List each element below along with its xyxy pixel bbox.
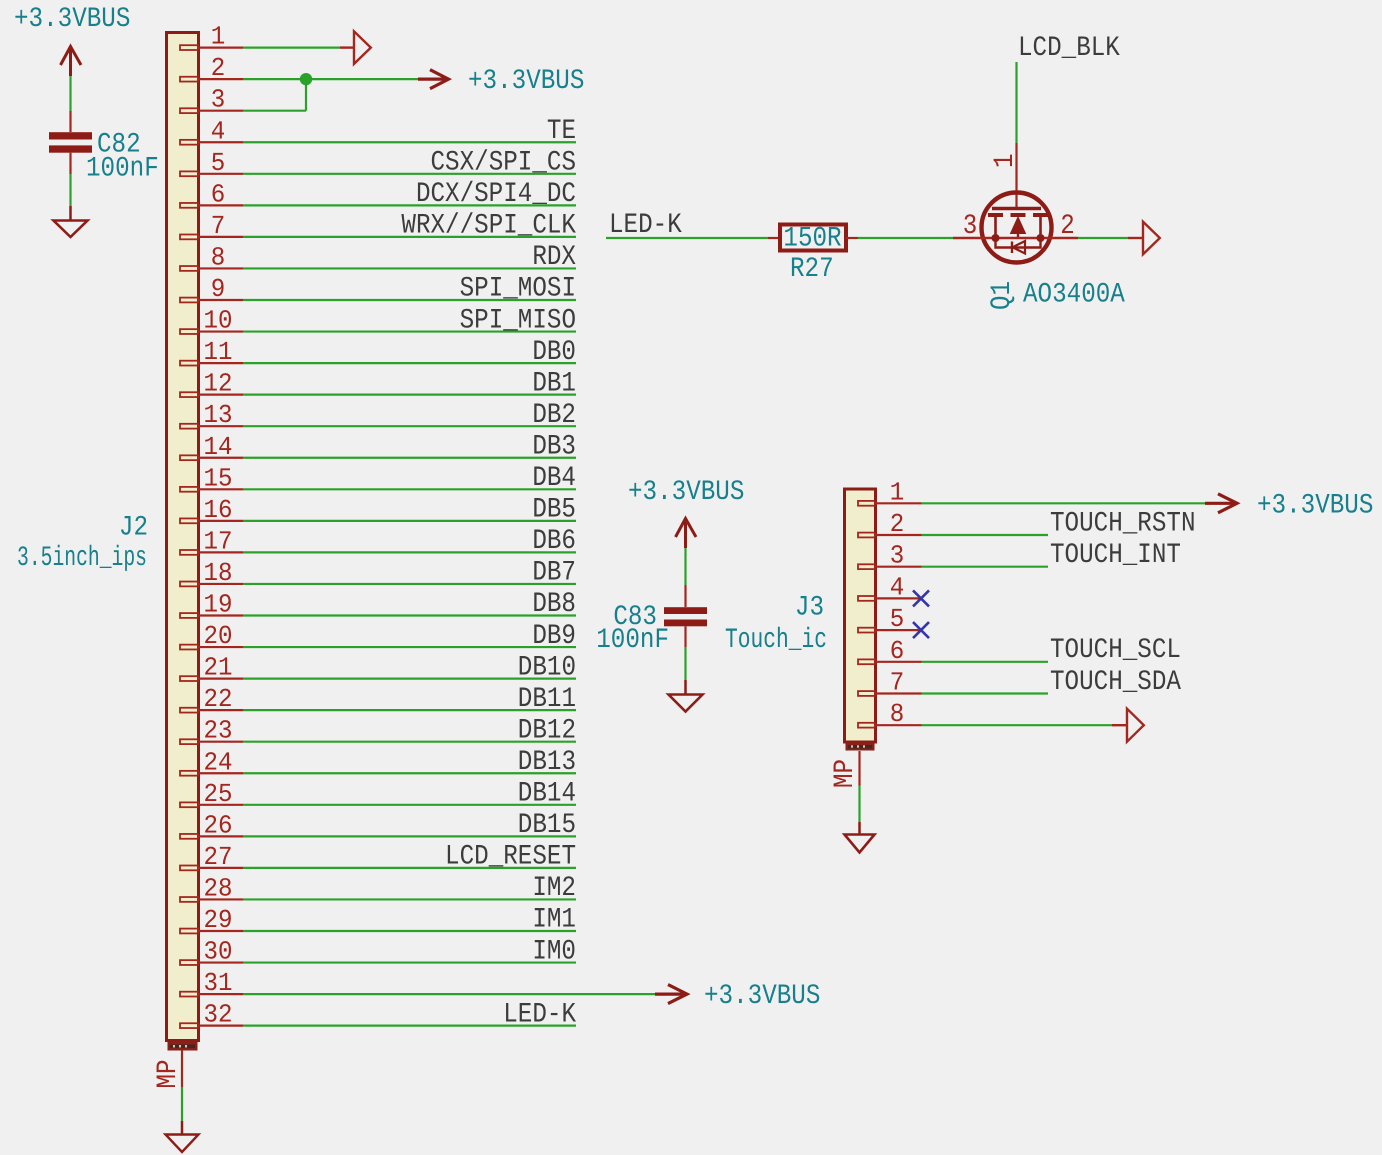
svg-text:+3.3VBUS: +3.3VBUS (468, 66, 584, 97)
svg-text:31: 31 (204, 968, 233, 998)
ground (166, 1121, 199, 1152)
capacitor C82 (49, 111, 159, 185)
J2 pin 3 (180, 85, 243, 115)
svg-text:30: 30 (204, 937, 233, 967)
capacitor C83 (596, 585, 707, 656)
svg-text:3: 3 (211, 85, 226, 115)
J2 pin 1 (180, 22, 243, 52)
power symbol +3.3VBUS (C83) (628, 477, 744, 548)
wire (243, 993, 655, 995)
svg-text:17: 17 (204, 526, 233, 556)
svg-text:1: 1 (890, 477, 905, 507)
wire (243, 488, 576, 490)
svg-text:100nF: 100nF (596, 625, 669, 656)
wire (243, 110, 306, 112)
wire (243, 520, 576, 522)
J2 pin 14 (180, 432, 243, 462)
connector J3 body (845, 489, 876, 742)
J2 pin 26 (180, 810, 243, 840)
J3 pin 1 (858, 477, 922, 507)
svg-text:AO3400A: AO3400A (1023, 280, 1125, 311)
svg-text:21: 21 (204, 653, 233, 683)
J2 pin 20 (180, 621, 243, 651)
wire (243, 930, 576, 932)
no-connect X (913, 622, 929, 638)
svg-text:J2: J2 (119, 513, 148, 544)
wire (922, 502, 1206, 504)
svg-text:13: 13 (204, 400, 233, 430)
ground (845, 822, 875, 853)
svg-text:DB8: DB8 (532, 589, 576, 620)
svg-text:4: 4 (890, 572, 905, 602)
J2 pin 17 (180, 526, 243, 556)
wire (606, 237, 768, 239)
svg-text:+3.3VBUS: +3.3VBUS (704, 981, 820, 1012)
svg-text:TOUCH_RSTN: TOUCH_RSTN (1050, 508, 1196, 539)
wire (243, 709, 576, 711)
svg-text:3: 3 (963, 211, 978, 242)
wire (69, 174, 71, 206)
connector J2 body (167, 33, 199, 1041)
svg-text:WRX//SPI_CLK: WRX//SPI_CLK (401, 211, 576, 242)
J2 mounting tag (168, 1042, 198, 1051)
wire (243, 267, 576, 269)
svg-text:TE: TE (547, 116, 576, 147)
J3 pin 4 (858, 572, 922, 602)
svg-text:11: 11 (204, 337, 233, 367)
wire (243, 78, 418, 80)
no-connect X (913, 590, 929, 606)
wire (243, 425, 576, 427)
wire (243, 457, 576, 459)
svg-text:27: 27 (204, 842, 233, 872)
svg-text:DB4: DB4 (532, 463, 576, 494)
svg-text:25: 25 (204, 779, 233, 809)
svg-text:20: 20 (204, 621, 233, 651)
svg-text:DB3: DB3 (532, 431, 576, 462)
svg-text:8: 8 (890, 699, 905, 729)
svg-text:IM2: IM2 (532, 873, 576, 904)
svg-text:24: 24 (204, 747, 233, 777)
svg-text:MP: MP (153, 1060, 184, 1089)
svg-text:LCD_RESET: LCD_RESET (445, 842, 576, 873)
svg-text:22: 22 (204, 684, 233, 714)
svg-text:4: 4 (211, 116, 226, 146)
J2 pin 24 (180, 747, 243, 777)
svg-text:LCD_BLK: LCD_BLK (1018, 33, 1120, 64)
svg-text:SPI_MISO: SPI_MISO (460, 305, 576, 336)
svg-text:IM1: IM1 (532, 905, 576, 936)
svg-text:18: 18 (204, 558, 233, 588)
J2 pin 22 (180, 684, 243, 714)
resistor R27 (768, 224, 858, 286)
svg-text:9: 9 (211, 274, 226, 304)
J2 pin 9 (180, 274, 243, 304)
svg-text:DB10: DB10 (518, 652, 576, 683)
svg-text:Q1: Q1 (987, 281, 1018, 310)
J3 pin 2 (858, 509, 922, 539)
J2 pin 15 (180, 463, 243, 493)
wire (243, 46, 340, 48)
J2 pin 11 (180, 337, 243, 367)
J2 pin 25 (180, 779, 243, 809)
svg-text:2: 2 (890, 509, 905, 539)
wire (243, 804, 576, 806)
junction (300, 73, 312, 85)
J2 pin 5 (180, 148, 243, 178)
svg-text:8: 8 (211, 242, 226, 272)
svg-text:100nF: 100nF (86, 154, 159, 185)
svg-text:19: 19 (204, 590, 233, 620)
hierarchical output arrow (J2 pin 1) (340, 31, 371, 64)
wire (922, 566, 1049, 568)
J2 pin 31 (180, 968, 243, 998)
svg-text:28: 28 (204, 873, 233, 903)
wire (69, 76, 71, 111)
svg-text:DB13: DB13 (518, 747, 576, 778)
J2 pin 27 (180, 842, 243, 872)
svg-text:+3.3VBUS: +3.3VBUS (1257, 490, 1373, 521)
svg-text:DB12: DB12 (518, 715, 576, 746)
svg-text:3.5inch_ips: 3.5inch_ips (17, 543, 147, 574)
wire (922, 724, 1113, 726)
svg-text:DB2: DB2 (532, 400, 576, 431)
svg-text:DB1: DB1 (532, 368, 576, 399)
J2 pin 16 (180, 495, 243, 525)
wire (243, 961, 576, 963)
svg-text:DB5: DB5 (532, 495, 576, 526)
J2 pin 30 (180, 937, 243, 967)
J2 pin 19 (180, 590, 243, 620)
svg-text:RDX: RDX (532, 242, 576, 273)
ground (669, 680, 703, 712)
svg-text:6: 6 (890, 636, 905, 666)
svg-text:29: 29 (204, 905, 233, 935)
J2 pin 8 (180, 242, 243, 272)
J2 pin 4 (180, 116, 243, 146)
wire (1015, 62, 1017, 143)
svg-text:DB0: DB0 (532, 337, 576, 368)
svg-text:10: 10 (204, 306, 233, 336)
wire (243, 299, 576, 301)
svg-text:J3: J3 (795, 593, 824, 624)
wire (243, 1025, 576, 1027)
svg-text:DB6: DB6 (532, 526, 576, 557)
svg-text:7: 7 (211, 211, 226, 241)
power symbol +3.3VBUS (J2 pin 2) (418, 66, 584, 97)
svg-text:32: 32 (204, 1000, 233, 1030)
svg-text:TOUCH_SCL: TOUCH_SCL (1050, 635, 1181, 666)
J2 pin 2 (180, 53, 243, 83)
svg-text:DB11: DB11 (518, 684, 576, 715)
wire (243, 330, 576, 332)
wire (922, 534, 1049, 536)
svg-text:DCX/SPI4_DC: DCX/SPI4_DC (416, 179, 576, 210)
wire (243, 614, 576, 616)
svg-text:SPI_MOSI: SPI_MOSI (460, 274, 576, 305)
J3 MP pin (830, 751, 861, 788)
wire (243, 867, 576, 869)
svg-text:CSX/SPI_CS: CSX/SPI_CS (431, 148, 577, 179)
J2 pin 28 (180, 873, 243, 903)
wire (181, 1087, 183, 1121)
svg-text:2: 2 (1060, 211, 1075, 242)
wire (243, 898, 576, 900)
J3 pin 7 (858, 668, 922, 698)
svg-text:TOUCH_INT: TOUCH_INT (1050, 540, 1181, 571)
svg-text:R27: R27 (790, 254, 834, 285)
wire (858, 237, 953, 239)
wire (243, 236, 576, 238)
svg-text:150R: 150R (783, 224, 841, 255)
wire (858, 786, 860, 823)
wire (243, 204, 576, 206)
svg-text:LED-K: LED-K (609, 210, 682, 241)
svg-text:6: 6 (211, 179, 226, 209)
wire (305, 79, 307, 111)
svg-text:+3.3VBUS: +3.3VBUS (628, 477, 744, 508)
svg-text:DB7: DB7 (532, 558, 576, 589)
svg-text:DB9: DB9 (532, 621, 576, 652)
svg-text:5: 5 (890, 604, 905, 634)
power symbol +3.3VBUS (J3 pin 1) (1205, 490, 1373, 521)
wire (243, 677, 576, 679)
J2 pin 6 (180, 179, 243, 209)
wire (684, 548, 686, 585)
svg-text:16: 16 (204, 495, 233, 525)
wire (243, 835, 576, 837)
wire (1078, 237, 1128, 239)
wire (922, 661, 1049, 663)
J2 MP pin (153, 1050, 184, 1089)
power symbol +3.3VBUS (J2 pin 31) (655, 981, 820, 1012)
J3 pin 6 (858, 636, 922, 666)
J2 pin 23 (180, 716, 243, 746)
J3 pin 8 (858, 699, 922, 729)
J2 pin 18 (180, 558, 243, 588)
svg-text:Touch_ic: Touch_ic (725, 625, 827, 656)
svg-text:14: 14 (204, 432, 233, 462)
wire (243, 772, 576, 774)
svg-text:+3.3VBUS: +3.3VBUS (14, 4, 130, 35)
svg-text:DB15: DB15 (518, 810, 576, 841)
J2 pin 21 (180, 653, 243, 683)
transistor Q1 AO3400A (953, 143, 1125, 311)
ground (54, 206, 88, 237)
J2 pin 12 (180, 369, 243, 399)
wire (243, 551, 576, 553)
svg-text:1: 1 (990, 154, 1021, 169)
svg-text:15: 15 (204, 463, 233, 493)
wire (243, 646, 576, 648)
svg-text:5: 5 (211, 148, 226, 178)
svg-text:1: 1 (211, 22, 226, 52)
wire (684, 647, 686, 680)
svg-text:3: 3 (890, 541, 905, 571)
svg-text:TOUCH_SDA: TOUCH_SDA (1050, 667, 1181, 698)
J3 mounting tag (846, 743, 875, 751)
wire (243, 141, 576, 143)
J2 pin 7 (180, 211, 243, 241)
svg-text:MP: MP (830, 759, 861, 788)
hierarchical output arrow (Q1 pin 2) (1128, 237, 1143, 239)
J2 pin 32 (180, 1000, 243, 1030)
wire (243, 173, 576, 175)
svg-text:12: 12 (204, 369, 233, 399)
J2 pin 13 (180, 400, 243, 430)
J3 pin 5 (858, 604, 922, 634)
svg-text:DB14: DB14 (518, 779, 576, 810)
wire (243, 394, 576, 396)
J2 pin 10 (180, 306, 243, 336)
svg-text:7: 7 (890, 668, 905, 698)
svg-text:26: 26 (204, 810, 233, 840)
wire (922, 692, 1049, 694)
wire (243, 583, 576, 585)
J3 pin 3 (858, 541, 922, 571)
wire (243, 362, 576, 364)
svg-text:IM0: IM0 (532, 936, 576, 967)
power symbol +3.3VBUS (top left) (14, 4, 130, 76)
wire (243, 741, 576, 743)
J2 pin 29 (180, 905, 243, 935)
svg-text:LED-K: LED-K (503, 999, 576, 1030)
svg-text:2: 2 (211, 53, 226, 83)
hierarchical output arrow (J3 pin 8) (1112, 724, 1127, 726)
svg-text:23: 23 (204, 716, 233, 746)
